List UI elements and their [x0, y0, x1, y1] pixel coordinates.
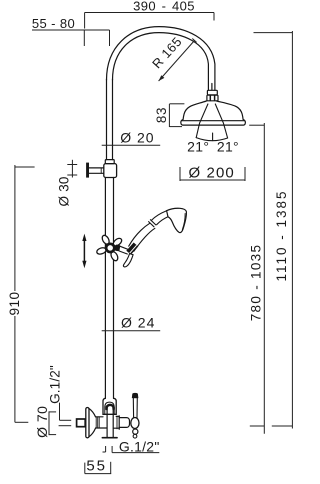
clevis pin dark arch — [107, 405, 114, 409]
hex nipple — [77, 419, 86, 427]
inner tube through valve — [106, 410, 108, 437]
svg-text:21°: 21° — [187, 139, 209, 155]
svg-text:Ø 24: Ø 24 — [121, 315, 155, 331]
curved shower arm R165 — [107, 27, 215, 91]
shower head bell — [181, 101, 246, 125]
thread section — [96, 416, 104, 418]
leader Ø20 — [102, 144, 161, 146]
leader R165 — [159, 39, 197, 82]
lever handle — [131, 393, 139, 438]
valve foot base — [102, 437, 117, 439]
dim Ø70 bracket — [49, 411, 56, 435]
svg-text:G.1/2": G.1/2" — [47, 365, 62, 404]
dim 910 — [15, 165, 35, 422]
lever mount — [119, 418, 129, 428]
clevis inner arch outline — [105, 402, 114, 414]
dim 55 bracket — [85, 462, 111, 474]
svg-text:55 - 80: 55 - 80 — [32, 16, 75, 31]
hand shower handle (spindle) — [129, 211, 168, 252]
adjustability double arrow — [82, 234, 86, 269]
valve body — [77, 408, 130, 438]
svg-text:55: 55 — [86, 457, 107, 474]
svg-text:Ø 200: Ø 200 — [189, 164, 235, 181]
svg-text:Ø 30: Ø 30 — [56, 176, 71, 206]
wall flange bell — [86, 408, 89, 438]
leader G1/2 left — [59, 403, 72, 426]
svg-text:910: 910 — [7, 291, 22, 315]
dim 390-405 — [85, 13, 214, 29]
dim 1110-1385 — [254, 31, 293, 429]
connector collar above head — [207, 90, 218, 100]
svg-text:83: 83 — [154, 107, 169, 123]
dim 780-1035 — [249, 123, 264, 434]
collar at top of handle — [149, 220, 156, 227]
svg-text:Ø 20: Ø 20 — [120, 130, 154, 146]
dim Ø30 — [67, 160, 77, 178]
dim 55-80 — [32, 30, 110, 46]
svg-text:G.1/2": G.1/2" — [119, 439, 160, 455]
hand shower holder knob (star handle) — [96, 234, 123, 262]
wire vertical pipe lower Ø24 — [105, 178, 113, 399]
svg-text:1110 - 1385: 1110 - 1385 — [274, 189, 289, 281]
body right side — [116, 415, 119, 417]
leader Ø24 — [102, 330, 161, 332]
svg-text:390 - 405: 390 - 405 — [133, 0, 195, 14]
leader G1/2 bottom — [103, 446, 160, 453]
dim Ø200 — [180, 167, 245, 181]
spray cone 21 degrees — [196, 104, 227, 141]
hand shower head — [167, 208, 187, 232]
neck to head — [152, 211, 167, 220]
svg-text:Ø 70: Ø 70 — [34, 406, 50, 438]
svg-text:21°: 21° — [217, 139, 239, 155]
clamp band dark — [127, 243, 138, 254]
svg-text:R 165: R 165 — [149, 34, 185, 71]
hand shower holder arm and clamp band — [120, 243, 138, 267]
diverter fitting Ø30 on column — [86, 160, 117, 178]
svg-text:780 - 1035: 780 - 1035 — [249, 244, 264, 322]
wire vertical pipe upper Ø20 — [107, 79, 113, 160]
dim 83 bracket — [169, 104, 184, 127]
hand shower butt hook in holder — [123, 254, 133, 267]
valve swivel clevis — [103, 398, 116, 436]
